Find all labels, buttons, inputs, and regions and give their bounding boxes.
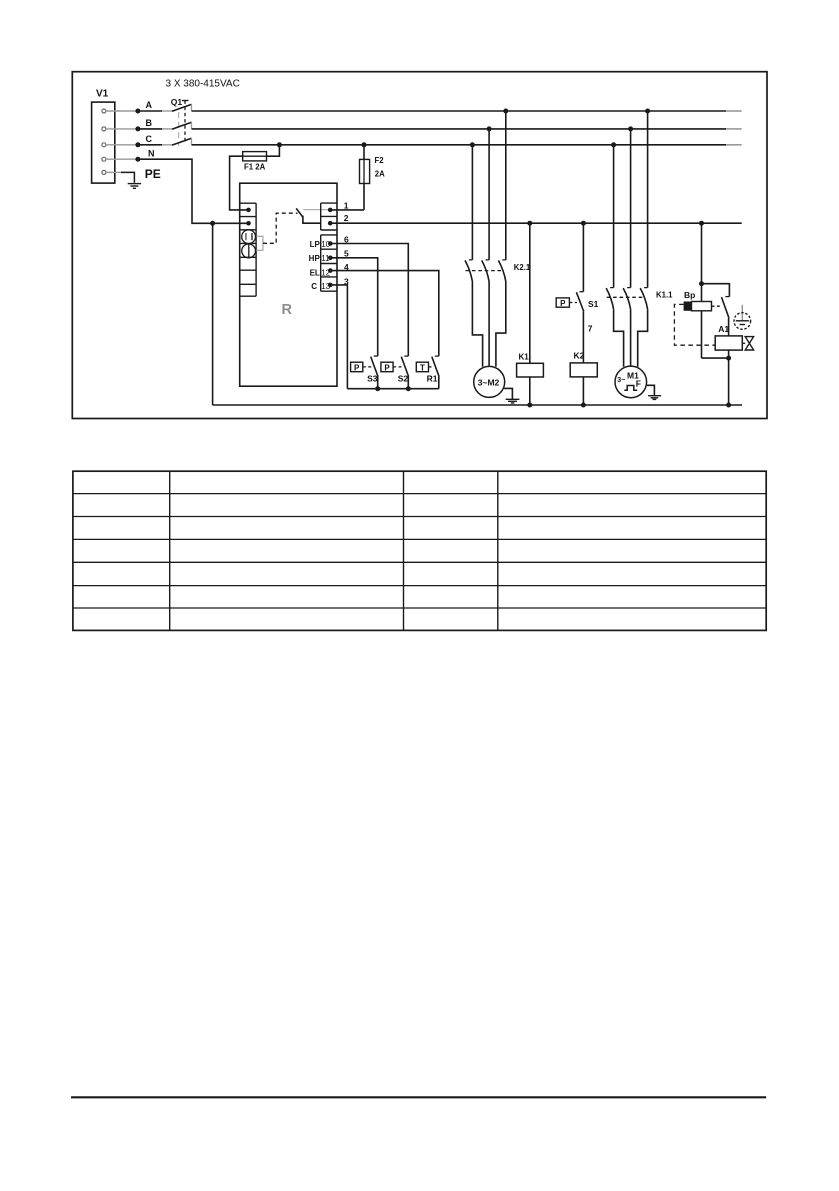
wire stub C [106,144,138,146]
node B-K1.1 junction [628,126,633,131]
R clock bracket [256,236,263,250]
pressure switch S3 blade [371,357,378,377]
contactor K2.1 pole2 upper lead [488,129,490,260]
svg-text:C: C [311,282,317,291]
wire Bp contact branch [702,284,730,297]
svg-text:10: 10 [321,240,330,249]
Q1 pole B contact tick [191,122,193,129]
node A junction [135,109,140,114]
node control Bp junction [699,221,704,226]
pressure switch S3 lower lead [377,377,379,389]
R clock symbol upper circle [242,230,256,244]
R right terminal strip block B [321,235,337,291]
node control S1 junction [581,221,586,226]
R terminal 1 pin [328,208,333,213]
R clock upper tick 2 [251,233,253,240]
contactor coil K2 [570,363,597,377]
wire stub A [106,110,138,112]
terminal V1 pin A [102,109,106,113]
svg-text:S3: S3 [367,373,378,383]
R clock upper ticks [245,233,247,240]
R left terminal N pin [246,221,251,226]
fuse F2 through wire [363,159,365,183]
terminal V1 pin N [102,157,106,161]
wire phase A bus [192,110,727,112]
svg-text:LP: LP [310,240,321,249]
terminal V1 pin PE [102,170,106,174]
pressure switch S3 contact tick [374,355,378,357]
R terminal 2 pin [328,221,333,226]
node N branch junction [210,221,215,226]
svg-text:13: 13 [321,282,330,291]
K1.1 linkage dashed [607,296,645,298]
K2.1 pole ticks [469,259,506,261]
Bp dashed link to blade [712,305,720,307]
Q1 pole C blade [172,138,192,145]
svg-text:P: P [354,363,360,372]
node C-F2 junction [362,142,367,147]
earth circle bar [736,320,749,322]
wire N bottom rail [213,404,742,406]
wire Bp body lower [701,311,703,358]
svg-text:HP: HP [309,254,321,263]
svg-text:B: B [146,118,153,128]
contactor K2.1 pole1 upper lead [471,145,473,260]
svg-text:F1 2A: F1 2A [244,162,266,171]
Q1 handle bar [182,100,189,102]
wire A1 to valve [742,342,745,344]
diagram border frame [72,72,767,419]
wire F2 riser [363,145,365,210]
terminal block V1 [92,102,115,183]
footer rule [71,1096,766,1098]
svg-text:R1: R1 [427,374,438,384]
svg-text:7: 7 [588,324,593,334]
ground M1 [648,396,661,400]
ground PE [128,184,141,189]
switch S1 blade [576,292,583,311]
svg-text:3~M2: 3~M2 [478,377,500,387]
node C-K1.1 junction [611,142,616,147]
svg-text:3 X 380-415VAC: 3 X 380-415VAC [166,79,240,90]
Q1 linkage gray bar [178,112,180,146]
node B-K2.1 junction [487,126,492,131]
valve symbol [745,337,753,350]
svg-text:A: A [146,100,153,110]
wire K1 coil lower [529,377,531,405]
R left terminal strip [240,203,256,296]
motor M1 pulse symbol [624,386,637,391]
node C-F1 junction [277,142,282,147]
motor M1 [615,366,647,398]
K1.1 pole ticks [610,287,648,289]
wire pin10 to S2 [330,244,408,357]
wire phase A bus tail [726,110,742,112]
Bp contact blade [722,297,729,318]
pressure switch S3 actuator box [351,362,363,372]
node N junction [135,157,140,162]
wire M2 earth lead [504,388,512,399]
pressure switch S2 contact tick [404,355,408,357]
svg-text:R: R [282,302,293,318]
relay coil A1 [715,336,742,350]
K1.1 pole3 blade [640,288,647,309]
svg-text:T: T [420,363,425,372]
svg-text:K2: K2 [574,351,585,361]
svg-text:Bp: Bp [684,290,695,300]
K1.1 pole2 lower lead [630,309,632,366]
wire S1 to K2 coil [582,311,584,363]
wire A1 lower [728,350,730,405]
wire PE [121,172,134,182]
node N rail K1 junction [527,403,532,408]
svg-text:3~: 3~ [617,377,625,384]
earth circle symbol stem [741,305,743,321]
wire pin11 to S3 [330,258,377,356]
Q1 pole C contact tick [191,138,193,145]
terminal V1 pin C [102,143,106,147]
wire A gray lead [162,110,172,112]
switch S1 actuator box [556,298,569,307]
R terminal 13 pin [328,283,333,288]
svg-text:K1: K1 [519,353,530,362]
contactor K1.1 pole2 upper lead [630,129,632,288]
Bp capillary dashed box [674,304,715,345]
S2 actuator dashed link [393,366,402,368]
svg-text:1: 1 [344,200,349,210]
pressure switch Bp body [692,302,712,311]
svg-text:K2.1: K2.1 [514,263,531,272]
thermostat R1 blade [432,357,439,377]
node Bp upper junction [699,281,704,286]
R right terminal strip block A [321,203,337,230]
wire pin12 to R1 [330,271,439,357]
wire Bp branch from control line [701,223,703,301]
svg-text:F: F [636,378,641,388]
thermostat R1 lower lead [438,377,440,389]
node control K1 junction [527,221,532,226]
earth circle short bar [740,324,745,326]
legend table [73,471,766,630]
K2.1 linkage dashed [466,270,503,272]
node S2 rail junction [406,386,411,391]
S3 actuator dashed link [363,366,372,368]
R clock symbol lower circle [242,244,256,258]
R terminal 11 pin [328,255,333,260]
wire phase B bus tail [726,128,742,130]
wire B gray lead [162,128,172,130]
node B junction [135,126,140,131]
fuse F1 through wire [243,155,267,157]
Q1 linkage dashed [184,101,186,143]
wire C to Q1 [138,144,162,146]
K1.1 pole1 lower lead [614,309,624,367]
wire stub B [106,128,138,130]
fuse F2 [360,159,370,183]
Q1 pole B blade [172,122,192,129]
wire F1 to terminal [230,156,249,210]
contactor K1.1 pole1 upper lead [613,145,615,288]
earth circle symbol [734,313,751,330]
wire A1 junction to Bp body [702,357,729,359]
wire K2 coil lower [582,377,584,405]
svg-text:C: C [146,134,153,144]
svg-text:K1.1: K1.1 [656,290,673,299]
K2.1 pole3 lower lead [496,282,506,367]
wire A to Q1 [138,110,162,112]
S1 actuator dashed link [569,302,577,304]
wire K1 coil branch upper [529,223,531,363]
svg-text:2: 2 [344,213,349,223]
K2.1 pole2 lower lead [488,282,490,367]
svg-text:V1: V1 [96,89,109,100]
svg-text:EL: EL [310,269,320,278]
R1 actuator dashed link [429,366,434,368]
svg-text:S1: S1 [588,299,599,309]
wire phase C bus [192,144,727,146]
R clock lower diameter [248,244,250,258]
R linkage dashed path [263,213,298,243]
wire terminal1 to F2 [330,209,364,211]
wire C gray lead [162,144,172,146]
K2.1 pole2 blade [482,260,489,281]
wire M1 earth lead [646,385,654,395]
wire phase B bus [192,128,727,130]
svg-text:A1: A1 [718,324,729,334]
contactor K2.1 pole3 upper lead [505,111,507,260]
K2.1 pole1 blade [465,260,472,281]
wire phase C bus tail [726,144,742,146]
wire F1 riser [267,145,280,156]
pressure switch Bp bellows filled [684,302,692,311]
Q1 pole A blade [172,104,192,111]
node A1 lower junction [726,356,731,361]
svg-text:P: P [384,363,390,372]
K1.1 pole1 blade [606,288,613,309]
svg-text:PE: PE [145,167,161,181]
switch common rail [347,388,438,390]
wire S1 branch upper [582,223,584,292]
K2.1 pole1 lower lead [472,282,482,367]
fuse F1 [243,152,267,161]
node N rail K2 junction [581,403,586,408]
svg-text:Q1: Q1 [171,97,183,107]
K2.1 pole3 blade [498,260,505,281]
wire B to Q1 [138,128,162,130]
node S3 rail junction [375,386,380,391]
contactor K1.1 pole3 upper lead [647,111,649,288]
node C junction [135,142,140,147]
Q1 pole A contact tick [191,104,193,111]
node A-K1.1 junction [645,109,650,114]
R relay blade [296,208,302,216]
pressure switch S2 blade [401,357,408,377]
node N rail A1 junction [726,403,731,408]
wire N drop to bottom rail [212,223,214,405]
pressure switch S2 lower lead [407,377,409,389]
thermostat R1 contact tick [435,355,439,357]
wire pin13 to switch rail [330,285,347,389]
R left terminal L pin [246,208,251,213]
svg-text:N: N [148,148,155,158]
contactor coil K1 [517,363,544,377]
wire N down and across [138,159,249,223]
R terminal 10 pin [328,241,333,246]
terminal V1 pin B [102,127,106,131]
node A-K2.1 junction [503,109,508,114]
K1.1 pole2 blade [623,288,630,309]
pressure switch S2 actuator box [381,362,393,372]
thermostat R1 actuator box [416,362,428,372]
motor M2 [474,366,505,397]
svg-text:2A: 2A [375,169,385,178]
wire control line from terminal 2 [330,222,742,224]
svg-text:11: 11 [321,254,330,263]
svg-text:F2: F2 [375,156,385,165]
svg-text:12: 12 [321,269,330,278]
node C-K2.1 junction [470,142,475,147]
switch S1 contact tick [579,291,583,293]
wire PE stub gray [106,171,121,173]
wire stub N [106,158,138,160]
svg-text:S2: S2 [398,373,409,383]
Bp contact tick [725,296,729,298]
K1.1 pole3 lower lead [638,309,648,367]
R terminal 12 pin [328,268,333,273]
wire Bp blade to A1 [728,318,730,336]
svg-text:P: P [560,299,566,308]
ground M2 [506,399,520,403]
R relay blade lead to terminal 2 [303,216,321,223]
controller box R [240,183,337,386]
R relay fixed contact gray [303,209,330,211]
